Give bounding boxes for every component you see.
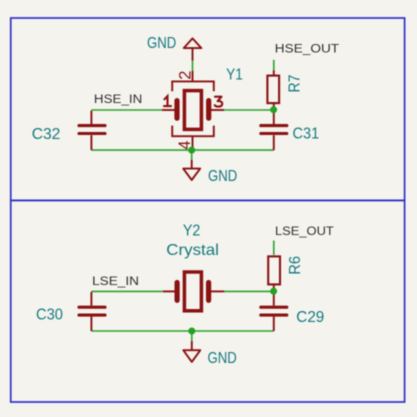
svg-text:C30: C30	[36, 306, 63, 323]
svg-text:HSE_IN: HSE_IN	[94, 92, 142, 106]
svg-text:R7: R7	[286, 74, 303, 92]
svg-text:Crystal: Crystal	[166, 242, 219, 259]
svg-text:HSE_OUT: HSE_OUT	[275, 42, 340, 56]
svg-text:GND: GND	[208, 350, 237, 367]
svg-text:LSE_IN: LSE_IN	[92, 274, 139, 288]
svg-text:GND: GND	[147, 35, 176, 52]
svg-text:GND: GND	[208, 168, 237, 185]
svg-text:2: 2	[176, 71, 194, 80]
svg-text:Y1: Y1	[226, 67, 243, 84]
svg-text:R6: R6	[287, 256, 304, 275]
svg-text:C31: C31	[293, 126, 320, 143]
svg-text:C29: C29	[296, 309, 324, 326]
svg-text:LSE_OUT: LSE_OUT	[275, 224, 334, 238]
svg-text:C32: C32	[32, 126, 61, 143]
svg-text:Y2: Y2	[183, 223, 201, 240]
